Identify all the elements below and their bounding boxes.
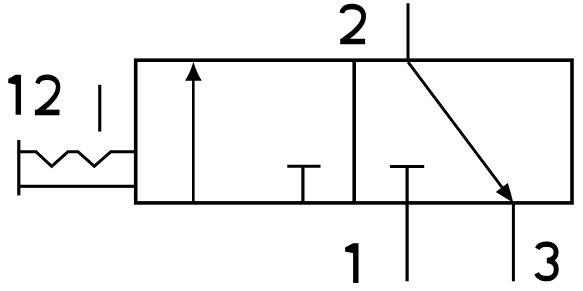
label port 12 digit 1 (8, 75, 21, 115)
port 2 line (407, 3, 410, 60)
label port 1 (345, 243, 358, 283)
position divider line (352, 60, 356, 203)
spring lower rail (19, 185, 136, 188)
spring end cap (17, 140, 20, 196)
diagonal flow line 2 to 3 (right position) (408, 62, 503, 189)
spring zigzag (return spring) (19, 152, 136, 167)
pilot port 12 stub line (98, 85, 101, 132)
flow arrow head (left position) (185, 62, 202, 81)
label port 12 digit 2 (35, 77, 60, 112)
blocked port symbol T1 (left position) stem (301, 166, 304, 203)
blocked port symbol T2 (right position) bar (390, 165, 424, 168)
label port 2 (340, 7, 365, 42)
port 3 line (512, 203, 515, 281)
diagonal flow arrow head (496, 183, 513, 203)
flow arrow stem (left position, 1 to 2) (192, 80, 195, 202)
valve body outline (136, 60, 572, 203)
label port 3 (537, 244, 557, 278)
blocked port symbol T1 bar (287, 165, 320, 168)
port 1 line (T2 stem extended below body) (406, 167, 409, 282)
